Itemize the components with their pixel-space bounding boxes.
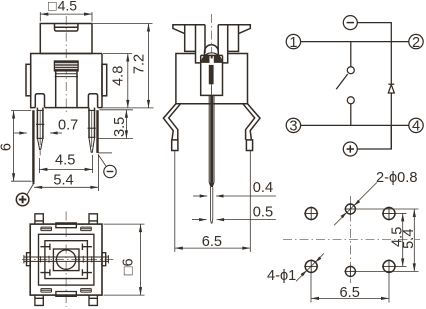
corner post bottom-right: [89, 295, 97, 305]
svg-text:0.4: 0.4: [253, 180, 273, 196]
svg-text:4: 4: [412, 119, 420, 135]
leg wire extension left: [174, 151, 176, 253]
hole top-middle: [344, 203, 356, 215]
housing box: [201, 55, 223, 95]
hole bottom-right: [382, 259, 396, 273]
terminal strip: [24, 255, 109, 263]
dim 6.5 pcb: [311, 273, 389, 303]
leg wire extension right: [249, 151, 251, 253]
collar line: [201, 54, 223, 56]
svg-text:1: 1: [289, 35, 297, 51]
left leg: [35, 94, 44, 108]
hole bottom-middle: [344, 265, 356, 277]
right side tab: [102, 64, 107, 96]
svg-text:2-ϕ0.8: 2-ϕ0.8: [376, 170, 417, 186]
hole top-right: [382, 207, 396, 221]
left spring leg: [163, 104, 180, 140]
pin 2: [409, 34, 423, 51]
body outline side: [176, 54, 248, 104]
dim 3.5 right pin: [97, 110, 134, 139]
dim square-6 bottom view: [104, 224, 145, 295]
bottom view centerline horizontal: [22, 259, 114, 261]
body: [31, 54, 102, 108]
plunger dome: [205, 45, 219, 56]
pcb centerline horizontal: [283, 238, 420, 240]
svg-text:3.5: 3.5: [112, 117, 128, 137]
dim 5.4 pcb: [356, 209, 419, 271]
svg-text:7.2: 7.2: [131, 54, 147, 74]
inner square 4: [53, 249, 79, 271]
left side tab: [26, 64, 31, 96]
inner pin dark bar: [209, 55, 214, 96]
dim 0.7 pin width: [14, 131, 62, 134]
corner post bottom-left: [35, 295, 43, 305]
left pin: [36, 108, 44, 156]
plate bottom-right: [81, 289, 92, 293]
svg-text:0.7: 0.7: [58, 118, 78, 134]
strip crimp ticks: [41, 256, 92, 263]
cap notch: [55, 24, 78, 32]
plunger shaft sides: [55, 71, 78, 108]
plate top-right: [81, 227, 92, 231]
right side tab: [102, 253, 106, 266]
side view dimensions: [175, 151, 276, 253]
right leg: [88, 94, 97, 108]
corner hook top-right: [82, 244, 92, 251]
pin thin wires: [210, 187, 212, 224]
bottom view centerline vertical: [65, 212, 67, 308]
dim 4.5 pins: [39, 155, 92, 173]
pin 4: [409, 118, 423, 134]
left leg foot: [172, 140, 178, 151]
leader 4-phi1: [296, 253, 324, 281]
right clip arm: [218, 25, 250, 63]
svg-text:5.4: 5.4: [401, 229, 417, 249]
dim 0.4: [193, 194, 276, 197]
svg-text:□6: □6: [121, 258, 137, 275]
left flange plate: [32, 110, 34, 182]
dim 6 left: [11, 111, 32, 182]
left side tab: [27, 253, 31, 266]
dim 5.4 pins outer: [34, 155, 98, 191]
plate bottom-left: [41, 289, 52, 293]
plus terminal: [343, 142, 357, 156]
corner post top-right: [89, 214, 97, 224]
svg-text:3: 3: [289, 119, 297, 135]
pin 1: [286, 34, 300, 51]
svg-text:2: 2: [412, 35, 420, 51]
svg-text:4.5: 4.5: [55, 152, 75, 168]
hole bottom-left: [304, 259, 318, 273]
wire plus to right bus: [357, 125, 391, 149]
side view centerline: [211, 14, 213, 53]
svg-text:6.5: 6.5: [202, 234, 222, 250]
switch lower contact: [347, 97, 354, 104]
diode: [388, 84, 394, 93]
inner square 2: [39, 234, 94, 285]
right bus lower: [390, 93, 392, 149]
left clip arm: [173, 25, 205, 63]
switch arm: [336, 74, 348, 89]
switch upper stub: [350, 42, 352, 67]
hole top-left: [304, 207, 318, 221]
corner post top-left: [35, 214, 43, 224]
right bus upper: [390, 42, 392, 84]
corner hook top-left: [40, 244, 50, 251]
plate top-left: [41, 227, 52, 231]
svg-text:5.4: 5.4: [53, 172, 73, 188]
raised block top: [56, 223, 76, 228]
svg-text:0.5: 0.5: [253, 204, 273, 220]
contact wedges dark: [202, 56, 210, 63]
bottom wire 3-4: [301, 124, 409, 126]
right pin: [88, 108, 96, 153]
plunger hatched head: [55, 61, 79, 71]
minus terminal: [343, 16, 357, 30]
dim 6.5 side view: [175, 247, 251, 250]
right leg foot: [246, 140, 252, 151]
dim square-4.5 top: [40, 12, 92, 22]
outer square: [30, 224, 102, 295]
pin 3: [286, 118, 300, 134]
dim 7.2 right: [93, 24, 154, 108]
leader 2-phi0.8: [334, 182, 377, 225]
switch lower stub: [350, 104, 352, 126]
cap (button top): [40, 24, 92, 54]
dim 4.8 right: [103, 54, 132, 108]
plus terminal mark front view: [16, 182, 34, 206]
wire minus to right bus: [357, 23, 391, 42]
minus terminal mark front view: [98, 153, 116, 178]
switch upper contact: [347, 67, 354, 74]
right spring leg: [243, 104, 260, 140]
center pin dark: [209, 95, 215, 187]
plunger circle: [56, 250, 75, 269]
front view dimensions: [0, 0, 153, 191]
top wire 1-2: [301, 41, 409, 43]
svg-text:4-ϕ1: 4-ϕ1: [267, 268, 296, 284]
svg-text:6: 6: [0, 143, 15, 151]
corner hook bottom-right: [82, 269, 92, 276]
dim 0.5: [192, 218, 276, 221]
svg-text:4.8: 4.8: [110, 66, 126, 86]
corner hook bottom-left: [40, 269, 50, 276]
pcb centerline vertical: [349, 196, 351, 283]
dim 4.5 pcb: [396, 213, 407, 266]
right flange plate: [96, 110, 98, 153]
front view centerline: [65, 16, 67, 112]
inner square 3: [45, 241, 88, 279]
svg-text:6.5: 6.5: [340, 285, 360, 301]
raised block bottom: [56, 292, 76, 297]
collar arc: [202, 53, 222, 63]
svg-text:□ 4.5: □ 4.5: [48, 0, 77, 14]
